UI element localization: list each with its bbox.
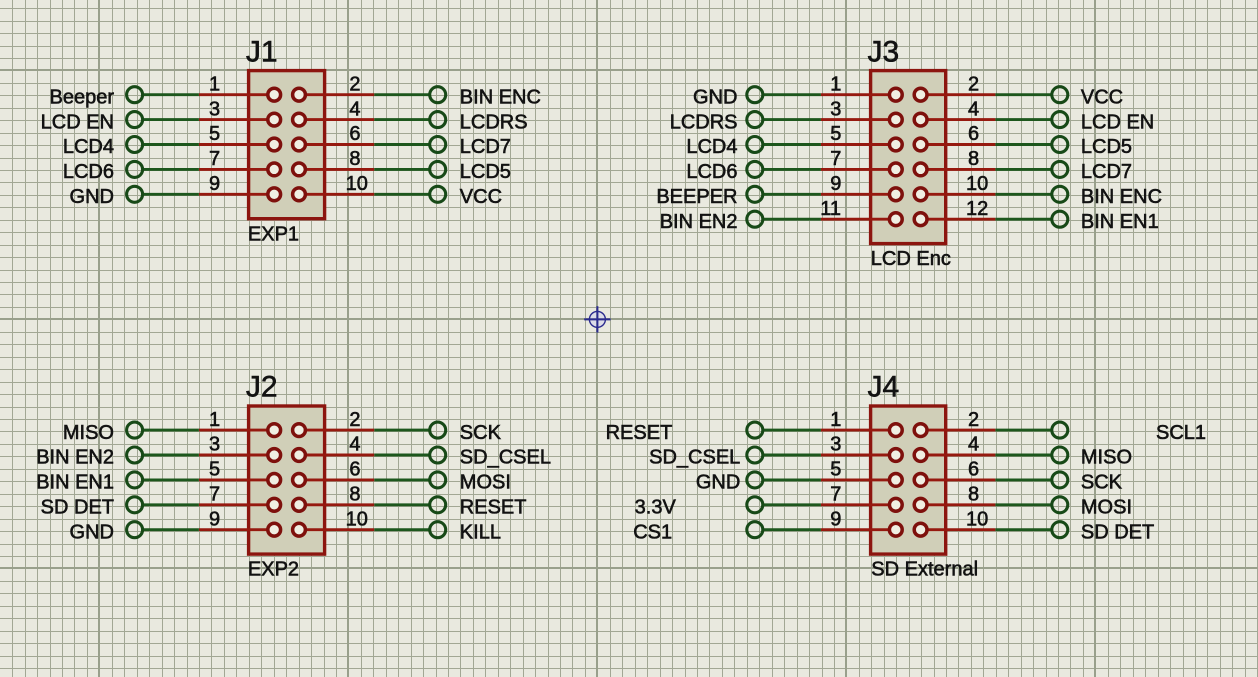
wire net LCDRS: J1 pin 4 to terminal xyxy=(374,118,429,121)
connector J1 (EXP1) body xyxy=(249,71,325,219)
svg-text:6: 6 xyxy=(349,459,360,481)
svg-text:9: 9 xyxy=(830,508,841,530)
terminal of net BIN EN2 xyxy=(747,211,763,227)
svg-text:2: 2 xyxy=(968,73,979,95)
svg-text:10: 10 xyxy=(966,173,988,195)
terminal of net BIN EN1 xyxy=(127,472,143,488)
terminal of net LCDRS xyxy=(430,112,446,128)
terminal of net RESET xyxy=(430,497,446,513)
svg-text:J4: J4 xyxy=(868,370,900,403)
svg-text:9: 9 xyxy=(209,173,220,195)
terminal of net LCD7 xyxy=(430,137,446,153)
svg-text:5: 5 xyxy=(209,123,220,145)
wire net CS1: terminal to J4 pin 9 xyxy=(763,528,821,531)
svg-text:MOSI: MOSI xyxy=(460,472,511,494)
terminal of net SD_CSEL xyxy=(747,447,763,463)
J3 pin 12 xyxy=(914,213,995,226)
terminal of net BIN EN2 xyxy=(127,447,143,463)
J3 pin 11 xyxy=(821,213,902,226)
terminal of net SCK xyxy=(430,422,446,438)
svg-text:BEEPER: BEEPER xyxy=(656,186,737,208)
terminal of net LCD6 xyxy=(127,161,143,177)
connector J4 (SD External) body xyxy=(871,406,946,554)
J1 pin 4 xyxy=(293,113,375,126)
svg-text:2: 2 xyxy=(349,73,360,95)
svg-text:BIN EN2: BIN EN2 xyxy=(36,447,114,469)
svg-text:1: 1 xyxy=(209,409,220,431)
wire net LCD7: J3 pin 8 to terminal xyxy=(995,168,1051,171)
terminal of net LCD7 xyxy=(1052,161,1068,177)
svg-text:VCC: VCC xyxy=(1081,86,1123,108)
svg-text:4: 4 xyxy=(349,98,360,120)
svg-text:8: 8 xyxy=(968,148,979,170)
J3 pin 8 xyxy=(914,163,995,176)
J2 pin 1 xyxy=(199,424,281,437)
terminal of net LCD6 xyxy=(747,161,763,177)
svg-text:10: 10 xyxy=(346,173,368,195)
svg-text:SD External: SD External xyxy=(871,558,978,580)
J4 pin 4 xyxy=(914,449,995,462)
origin marker xyxy=(584,306,610,332)
terminal of net BIN ENC xyxy=(1052,186,1068,202)
svg-text:GND: GND xyxy=(696,472,740,494)
wire net BIN EN1: J3 pin 12 to terminal xyxy=(995,218,1051,221)
svg-text:BIN ENC: BIN ENC xyxy=(1081,186,1162,208)
wire net SD_CSEL: J2 pin 4 to terminal xyxy=(374,454,429,457)
terminal of net LCD5 xyxy=(430,161,446,177)
svg-text:7: 7 xyxy=(830,484,841,506)
svg-text:6: 6 xyxy=(968,459,979,481)
svg-text:8: 8 xyxy=(349,484,360,506)
svg-text:MISO: MISO xyxy=(1081,447,1132,469)
svg-text:J1: J1 xyxy=(246,35,278,68)
J4 pin 9 xyxy=(821,523,902,536)
terminal of net LCD EN xyxy=(1052,112,1068,128)
svg-text:RESET: RESET xyxy=(460,497,527,519)
svg-text:8: 8 xyxy=(349,148,360,170)
wire net LCD5: J1 pin 8 to terminal xyxy=(374,168,429,171)
J4 pin 5 xyxy=(821,474,902,487)
svg-text:LCD4: LCD4 xyxy=(63,136,114,158)
wire net MOSI: J2 pin 6 to terminal xyxy=(374,478,429,481)
wire net SCK: J2 pin 2 to terminal xyxy=(374,429,429,432)
svg-text:BIN EN2: BIN EN2 xyxy=(660,211,738,233)
wire net LCD6: terminal to J1 pin 7 xyxy=(143,168,199,171)
svg-text:BIN ENC: BIN ENC xyxy=(460,86,541,108)
svg-text:BIN EN1: BIN EN1 xyxy=(1081,211,1159,233)
wire net VCC: J1 pin 10 to terminal xyxy=(374,193,429,196)
terminal of net KILL xyxy=(430,522,446,538)
wire net RESET: J2 pin 8 to terminal xyxy=(374,503,429,506)
svg-text:3: 3 xyxy=(209,98,220,120)
svg-text:GND: GND xyxy=(70,521,114,543)
J4 pin 7 xyxy=(821,498,902,511)
terminal of net 3.3V xyxy=(747,497,763,513)
J4 pin 1 xyxy=(821,424,902,437)
terminal of net MISO xyxy=(1052,447,1068,463)
wire net LCD EN: J3 pin 4 to terminal xyxy=(995,118,1051,121)
svg-text:4: 4 xyxy=(349,434,360,456)
svg-text:LCD5: LCD5 xyxy=(460,161,511,183)
svg-text:SCK: SCK xyxy=(1081,472,1123,494)
svg-text:SD_CSEL: SD_CSEL xyxy=(649,447,740,469)
wire net BIN EN2: terminal to J3 pin 11 xyxy=(763,218,821,221)
wire net BEEPER: terminal to J3 pin 9 xyxy=(763,193,821,196)
svg-text:1: 1 xyxy=(830,73,841,95)
svg-text:VCC: VCC xyxy=(460,186,502,208)
wire net LCD6: terminal to J3 pin 7 xyxy=(763,168,821,171)
J3 pin 6 xyxy=(914,138,995,151)
svg-text:11: 11 xyxy=(820,198,841,220)
J2 pin 8 xyxy=(293,498,375,511)
J3 pin 10 xyxy=(914,188,995,201)
svg-text:LCDRS: LCDRS xyxy=(460,111,528,133)
svg-text:GND: GND xyxy=(693,86,737,108)
terminal of net BIN ENC xyxy=(430,87,446,103)
svg-text:LCD6: LCD6 xyxy=(686,161,737,183)
terminal of net LCD4 xyxy=(127,137,143,153)
svg-text:MOSI: MOSI xyxy=(1081,497,1132,519)
svg-text:10: 10 xyxy=(346,508,368,530)
J4 pin 10 xyxy=(914,523,995,536)
J1 pin 2 xyxy=(293,88,375,101)
J4 pin 2 xyxy=(914,424,995,437)
terminal of net GND xyxy=(747,87,763,103)
svg-text:4: 4 xyxy=(968,98,979,120)
wire net MISO: terminal to J2 pin 1 xyxy=(143,429,199,432)
svg-text:EXP2: EXP2 xyxy=(248,558,299,580)
wire net BIN EN1: terminal to J2 pin 5 xyxy=(143,478,199,481)
svg-text:SD DET: SD DET xyxy=(41,497,114,519)
J1 pin 9 xyxy=(199,188,281,201)
svg-text:EXP1: EXP1 xyxy=(248,223,299,245)
terminal of net LCD EN xyxy=(127,112,143,128)
svg-text:7: 7 xyxy=(830,148,841,170)
terminal of net CS1 xyxy=(747,522,763,538)
terminal of net MOSI xyxy=(430,472,446,488)
J3 pin 3 xyxy=(821,113,902,126)
svg-text:7: 7 xyxy=(209,484,220,506)
wire net BIN EN2: terminal to J2 pin 3 xyxy=(143,454,199,457)
wire net SCK: J4 pin 6 to terminal xyxy=(995,478,1051,481)
wire net Beeper: terminal to J1 pin 1 xyxy=(143,93,199,96)
wire net GND: terminal to J3 pin 1 xyxy=(763,93,821,96)
J1 pin 6 xyxy=(293,138,375,151)
terminal of net SD_CSEL xyxy=(430,447,446,463)
terminal of net SD DET xyxy=(127,497,143,513)
terminal of net GND xyxy=(127,186,143,202)
wire net MOSI: J4 pin 8 to terminal xyxy=(995,503,1051,506)
svg-text:LCDRS: LCDRS xyxy=(670,111,738,133)
svg-text:3.3V: 3.3V xyxy=(635,497,677,519)
svg-text:SD DET: SD DET xyxy=(1081,521,1154,543)
J3 pin 7 xyxy=(821,163,902,176)
terminal of net SCL1 xyxy=(1052,422,1068,438)
connector J2 (EXP2) body xyxy=(249,406,325,554)
svg-text:6: 6 xyxy=(349,123,360,145)
J4 pin 8 xyxy=(914,498,995,511)
svg-text:5: 5 xyxy=(830,459,841,481)
svg-text:SCK: SCK xyxy=(460,422,502,444)
terminal of net VCC xyxy=(1052,87,1068,103)
terminal of net Beeper xyxy=(127,87,143,103)
svg-text:LCD5: LCD5 xyxy=(1081,136,1132,158)
J2 pin 6 xyxy=(293,474,375,487)
wire net SD_CSEL: terminal to J4 pin 3 xyxy=(763,454,821,457)
svg-text:SD_CSEL: SD_CSEL xyxy=(460,447,551,469)
terminal of net BEEPER xyxy=(747,186,763,202)
wire net LCD5: J3 pin 6 to terminal xyxy=(995,143,1051,146)
svg-text:MISO: MISO xyxy=(63,422,114,444)
J1 pin 10 xyxy=(293,188,375,201)
svg-text:3: 3 xyxy=(209,434,220,456)
terminal of net VCC xyxy=(430,186,446,202)
svg-text:LCD EN: LCD EN xyxy=(41,111,114,133)
svg-text:9: 9 xyxy=(209,508,220,530)
svg-text:RESET: RESET xyxy=(606,422,673,444)
svg-text:LCD6: LCD6 xyxy=(63,161,114,183)
svg-text:3: 3 xyxy=(830,98,841,120)
svg-text:7: 7 xyxy=(209,148,220,170)
J2 pin 3 xyxy=(199,449,281,462)
svg-text:CS1: CS1 xyxy=(633,521,672,543)
wire net BIN ENC: J3 pin 10 to terminal xyxy=(995,193,1051,196)
terminal of net LCD4 xyxy=(747,137,763,153)
J1 pin 5 xyxy=(199,138,281,151)
svg-text:3: 3 xyxy=(830,434,841,456)
svg-text:5: 5 xyxy=(830,123,841,145)
svg-text:1: 1 xyxy=(830,409,841,431)
svg-text:6: 6 xyxy=(968,123,979,145)
svg-text:GND: GND xyxy=(70,186,114,208)
svg-text:LCD4: LCD4 xyxy=(686,136,737,158)
J3 pin 5 xyxy=(821,138,902,151)
svg-text:2: 2 xyxy=(968,409,979,431)
svg-text:1: 1 xyxy=(209,73,220,95)
wire net BIN ENC: J1 pin 2 to terminal xyxy=(374,93,429,96)
wire net 3.3V: terminal to J4 pin 7 xyxy=(763,503,821,506)
J2 pin 10 xyxy=(293,523,375,536)
svg-text:4: 4 xyxy=(968,434,979,456)
wire net LCD4: terminal to J1 pin 5 xyxy=(143,143,199,146)
J3 pin 1 xyxy=(821,88,902,101)
svg-text:10: 10 xyxy=(966,508,988,530)
svg-text:LCD Enc: LCD Enc xyxy=(871,248,951,270)
J2 pin 7 xyxy=(199,498,281,511)
svg-text:SCL1: SCL1 xyxy=(1156,422,1206,444)
svg-text:LCD EN: LCD EN xyxy=(1081,111,1154,133)
J1 pin 1 xyxy=(199,88,281,101)
svg-text:BIN EN1: BIN EN1 xyxy=(36,472,114,494)
terminal of net RESET xyxy=(747,422,763,438)
wire net RESET: terminal to J4 pin 1 xyxy=(763,429,821,432)
terminal of net LCDRS xyxy=(747,112,763,128)
connector J3 (LCD Enc) body xyxy=(871,71,946,244)
svg-text:KILL: KILL xyxy=(460,521,501,543)
J1 pin 3 xyxy=(199,113,281,126)
wire net SCL1: J4 pin 2 to terminal xyxy=(995,429,1051,432)
wire net LCDRS: terminal to J3 pin 3 xyxy=(763,118,821,121)
J1 pin 7 xyxy=(199,163,281,176)
wire net GND: terminal to J4 pin 5 xyxy=(763,478,821,481)
svg-text:2: 2 xyxy=(349,409,360,431)
svg-text:J3: J3 xyxy=(868,35,900,68)
svg-text:9: 9 xyxy=(830,173,841,195)
terminal of net MISO xyxy=(127,422,143,438)
J4 pin 3 xyxy=(821,449,902,462)
J2 pin 5 xyxy=(199,474,281,487)
J2 pin 4 xyxy=(293,449,375,462)
wire net LCD4: terminal to J3 pin 5 xyxy=(763,143,821,146)
J2 pin 2 xyxy=(293,424,375,437)
svg-text:12: 12 xyxy=(966,198,988,220)
wire net SD DET: terminal to J2 pin 7 xyxy=(143,503,199,506)
terminal of net MOSI xyxy=(1052,497,1068,513)
svg-text:LCD7: LCD7 xyxy=(1081,161,1132,183)
svg-text:LCD7: LCD7 xyxy=(460,136,511,158)
J1 pin 8 xyxy=(293,163,375,176)
terminal of net SCK xyxy=(1052,472,1068,488)
svg-text:5: 5 xyxy=(209,459,220,481)
wire net LCD7: J1 pin 6 to terminal xyxy=(374,143,429,146)
svg-text:Beeper: Beeper xyxy=(50,86,115,108)
svg-text:8: 8 xyxy=(968,484,979,506)
terminal of net BIN EN1 xyxy=(1052,211,1068,227)
svg-text:J2: J2 xyxy=(246,370,278,403)
J2 pin 9 xyxy=(199,523,281,536)
wire net LCD EN: terminal to J1 pin 3 xyxy=(143,118,199,121)
wire net SD DET: J4 pin 10 to terminal xyxy=(995,528,1051,531)
wire net MISO: J4 pin 4 to terminal xyxy=(995,454,1051,457)
terminal of net SD DET xyxy=(1052,522,1068,538)
wire net KILL: J2 pin 10 to terminal xyxy=(374,528,429,531)
J3 pin 4 xyxy=(914,113,995,126)
wire net GND: terminal to J2 pin 9 xyxy=(143,528,199,531)
wire net GND: terminal to J1 pin 9 xyxy=(143,193,199,196)
terminal of net GND xyxy=(127,522,143,538)
J3 pin 2 xyxy=(914,88,995,101)
terminal of net LCD5 xyxy=(1052,137,1068,153)
terminal of net GND xyxy=(747,472,763,488)
wire net VCC: J3 pin 2 to terminal xyxy=(995,93,1051,96)
J4 pin 6 xyxy=(914,474,995,487)
J3 pin 9 xyxy=(821,188,902,201)
